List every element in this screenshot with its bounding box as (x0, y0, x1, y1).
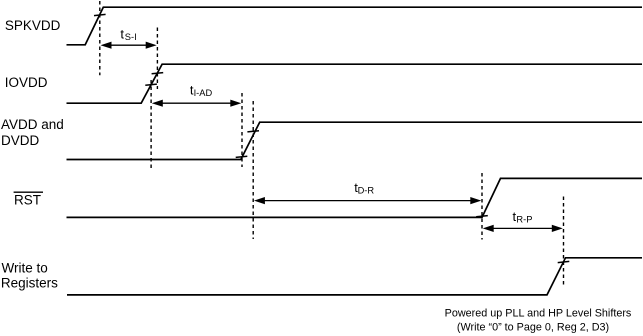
svg-text:t: t (120, 26, 124, 41)
svg-text:SPKVDD: SPKVDD (5, 18, 61, 33)
svg-text:DVDD: DVDD (1, 133, 40, 148)
svg-text:I-AD: I-AD (194, 88, 213, 98)
svg-text:IOVDD: IOVDD (5, 75, 48, 90)
svg-text:Powered up PLL and HP Level Sh: Powered up PLL and HP Level Shifters (445, 307, 632, 319)
svg-text:AVDD and: AVDD and (1, 117, 64, 132)
svg-text:D-R: D-R (358, 186, 375, 196)
svg-text:RST: RST (14, 192, 41, 207)
svg-text:R-P: R-P (516, 214, 532, 224)
svg-text:S-I: S-I (125, 32, 137, 42)
svg-text:Registers: Registers (1, 276, 58, 291)
svg-text:Write to: Write to (2, 261, 48, 276)
svg-text:(Write “0” to Page 0, Reg 2, D: (Write “0” to Page 0, Reg 2, D3) (457, 321, 609, 333)
